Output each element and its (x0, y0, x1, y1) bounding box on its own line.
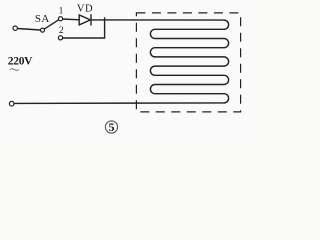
AC squiggle mark under 220V (10, 69, 19, 71)
svg-text:2: 2 (59, 26, 64, 36)
diode VD cathode bar (90, 14, 92, 25)
svg-text:1: 1 (59, 7, 64, 17)
switch contact 1 (58, 17, 62, 21)
svg-text:220V: 220V (8, 56, 33, 68)
dashed enclosure box (136, 13, 240, 112)
svg-text:VD: VD (77, 4, 93, 15)
switch SA pivot (41, 28, 45, 32)
bypass wire from contact 2 to junction (63, 37, 106, 39)
junction vertical wire (bypass branch from node after diode) (104, 17, 106, 38)
terminal (bottom left input) (9, 101, 14, 106)
heating element serpentine (resistor element) (150, 20, 228, 103)
switch SA blade (44, 20, 59, 29)
terminal (top left input) (13, 26, 17, 30)
svg-text:SA: SA (35, 13, 50, 25)
figure number circle 5 (105, 121, 117, 133)
svg-text:5: 5 (109, 120, 115, 134)
bottom wire from terminal to heater exit (14, 102, 224, 105)
diode VD triangle (79, 15, 90, 25)
wire from top terminal to switch pivot (18, 29, 41, 31)
wire contact 1 to diode anode (63, 18, 80, 21)
switch contact 2 (58, 36, 62, 40)
wire diode cathode to heater entry (top wire into dashed box) (91, 19, 224, 21)
